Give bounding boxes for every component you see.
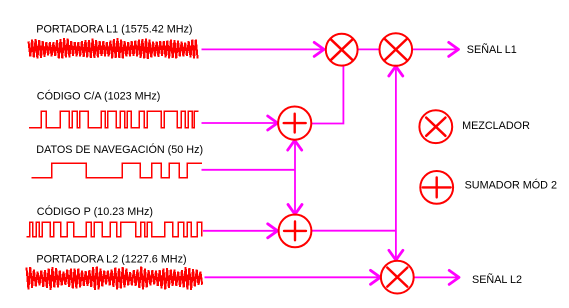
legend symbol sumador mod 2 bbox=[420, 171, 453, 204]
arrowhead into adder A2 left bbox=[268, 224, 278, 238]
arrowhead into adder A2 top bbox=[288, 205, 302, 215]
wire vertical junction between adders bbox=[294, 142, 296, 213]
arrowhead into adder A1 left bbox=[268, 116, 278, 130]
wire nav data to junction bbox=[202, 169, 296, 171]
arrowhead into adder A1 bottom bbox=[288, 140, 302, 150]
adder A2 (mod-2 sum) bbox=[279, 215, 312, 248]
wire C/A code to adder A1 bbox=[202, 122, 276, 124]
waveform W1 portadora L1 sine bbox=[29, 38, 198, 59]
waveform W3 datos de navegacion square bbox=[32, 163, 203, 178]
wire adder A1 output to mixer M1 bottom bbox=[311, 65, 343, 123]
arrowhead output señal L2 bbox=[449, 270, 459, 284]
svg-text:DATOS DE NAVEGACIÓN (50 Hz): DATOS DE NAVEGACIÓN (50 Hz) bbox=[36, 143, 203, 156]
mixer M1 bbox=[326, 34, 358, 66]
wire mixer M2 to output L1 bbox=[412, 48, 456, 50]
arrowhead into mixer M3 top bbox=[389, 250, 403, 260]
arrowhead output señal L1 bbox=[449, 42, 459, 56]
mixer M3 bbox=[381, 261, 414, 294]
wire adder A2 output to junction bbox=[311, 230, 396, 232]
svg-text:PORTADORA L1 (1575.42 MHz): PORTADORA L1 (1575.42 MHz) bbox=[36, 24, 192, 36]
arrowhead into mixer M2 bottom bbox=[389, 66, 403, 76]
waveform W2 codigo C/A square bbox=[29, 111, 199, 127]
wire vertical junction mixer M2 to mixer M3 bbox=[395, 68, 397, 260]
waveform W4 codigo P square bbox=[27, 222, 202, 236]
wire L1 carrier to mixer M1 bbox=[202, 48, 323, 50]
wire P code to adder A2 bbox=[203, 230, 276, 232]
waveform W5 portadora L2 sine bbox=[27, 266, 203, 290]
svg-text:CÓDIGO P (10.23 MHz): CÓDIGO P (10.23 MHz) bbox=[37, 205, 153, 218]
arrowhead into mixer M1 bbox=[314, 42, 324, 56]
arrowhead into mixer M3 left bbox=[371, 270, 381, 284]
wire mixer M3 to output L2 bbox=[414, 276, 457, 278]
legend symbol mezclador bbox=[419, 110, 452, 143]
svg-text:MEZCLADOR: MEZCLADOR bbox=[462, 120, 530, 132]
svg-text:SEÑAL L1: SEÑAL L1 bbox=[467, 43, 517, 56]
svg-text:SEÑAL L2: SEÑAL L2 bbox=[472, 273, 522, 286]
svg-text:PORTADORA L2 (1227.6 MHz): PORTADORA L2 (1227.6 MHz) bbox=[36, 253, 186, 265]
svg-text:CÓDIGO C/A (1023 MHz): CÓDIGO C/A (1023 MHz) bbox=[37, 90, 161, 103]
mixer M2 bbox=[380, 33, 413, 66]
adder A1 (mod-2 sum) bbox=[278, 107, 311, 140]
svg-text:SUMADOR MÓD 2: SUMADOR MÓD 2 bbox=[465, 179, 557, 192]
wire L2 carrier to mixer M3 bbox=[205, 276, 379, 278]
wire mixer M1 to mixer M2 bbox=[358, 48, 380, 50]
